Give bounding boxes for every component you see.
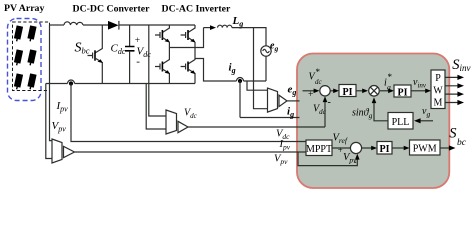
sensor: eg transducer trapezoid [268,88,278,112]
wire: PI 3 to PWM 2 [392,147,404,149]
wire: Vdc sense tap right [149,25,166,116]
svg-text:eg: eg [270,41,278,53]
PV panel 4 [27,49,36,63]
PV panel 5 [14,73,23,87]
signal wire Vdc into controller [188,126,325,128]
svg-text:P: P [435,73,441,84]
block PWM (inverter, vertical) [431,70,445,109]
PV panel 4 stem [29,63,31,66]
wire: Vpv sense tap from bottom rail [46,84,52,159]
controller block background [297,54,449,189]
transistor Q3 body bar [161,62,163,72]
PV panel 1 stem [16,39,18,42]
transistor Q2 body bar [187,30,189,40]
transistor Q1 gate [155,32,160,38]
sensor: Vdc transducer triangle [178,121,188,132]
PV panel 3 [14,49,23,63]
svg-text:Vpv: Vpv [274,154,288,166]
capacitor Cdc top lead [129,25,131,47]
transistor Sbc emitter arrow [98,59,103,63]
block MPPT [306,140,332,156]
junction dot ig node [238,79,242,83]
svg-text:Sbc: Sbc [75,41,90,56]
svg-text:DC-AC Inverter: DC-AC Inverter [162,4,231,15]
wire: AC return right of ig node [244,80,267,82]
wire: top DC rail middle segment [83,24,108,26]
signal wire eg into controller [287,100,300,102]
svg-text:PWM: PWM [413,144,437,155]
svg-text:*: * [316,67,321,77]
wire: Vdc* reference into summer [303,90,315,92]
svg-text:PI: PI [398,87,408,98]
svg-text:+: + [308,90,313,100]
wire: ig measurement drop [239,81,241,118]
svg-text:ig: ig [229,62,236,76]
wire: grid source bottom lead [265,56,267,81]
PV panel 6 stem [29,87,31,90]
wire: summer 1 to PI 1 [331,90,334,92]
wire: Vdc feedback into summer 1 [324,100,326,128]
svg-text:M: M [434,98,443,109]
transistor Q3 emitter [162,69,169,84]
wire: vg into PLL [420,120,434,122]
wire: Sbc gate signal out [440,147,450,149]
svg-text:-: - [354,157,357,167]
svg-text:dc: dc [315,78,323,86]
signal wire Vpv into controller [75,151,307,153]
wire: Vdc sense tap left [146,84,166,130]
inductor L1 (boost inductor) [64,22,83,25]
inverter right leg middle segment [188,42,195,64]
transistor Sbc collector lead [95,25,102,53]
transistor Q2 gate [181,32,186,38]
transistor Q4 body bar [187,62,189,72]
svg-text:Vdc: Vdc [276,129,290,141]
multiplier (circle with X) [369,86,380,97]
svg-text:ig: ig [287,106,294,119]
wire: Vpv feedback branch [298,152,357,165]
transistor Q1 emitter [162,38,169,43]
svg-text:Ipv: Ipv [56,100,69,114]
summer 1 (Vdc loop) [320,86,330,96]
transistor Q4 emitter [188,69,195,84]
wire: Ipv node hump [68,80,75,84]
sensor: Vpv transducer trapezoid [52,139,62,163]
sensor: Vpv transducer triangle [64,146,75,157]
block PWM (boost) [410,140,441,155]
Sinv gate signal arrows [445,77,459,102]
inverter right leg top lead [188,25,195,33]
inverter left leg top lead [162,25,169,33]
PV array outer dashed boundary [8,19,42,101]
svg-text:PV Array: PV Array [4,3,44,14]
svg-text:-: - [328,97,331,108]
svg-text:PLL: PLL [392,117,410,128]
AC source eg [261,46,271,56]
svg-text:PI: PI [380,144,390,155]
svg-text:W: W [433,86,443,97]
PV array inner dashed box [13,22,50,91]
wire: multiplier to PI 2 [380,90,389,92]
block PLL [388,113,413,130]
summer 2 (MPPT loop) [350,142,361,153]
svg-text:-: - [136,56,140,68]
wire: PI 2 to PWM block [411,90,426,92]
wire: top DC rail left segment [50,24,65,26]
svg-text:Lg: Lg [232,15,244,29]
capacitor Cdc plates [125,47,135,51]
junction dot Ipv node [69,81,73,85]
svg-text:Cdc: Cdc [111,43,126,57]
wire: summer 2 to PI 3 [362,147,372,149]
PV panel 2 [27,25,36,39]
PV panel 3 stem [16,63,18,66]
wire: AC return from right leg midpoint [195,59,237,82]
sensor: Vdc transducer trapezoid [166,110,177,134]
wire: ig node hump [237,78,244,81]
block PI 3 [377,142,392,155]
PV panel 6 [27,73,36,87]
wire: bottom DC rail left of Ipv node [46,83,68,85]
wire: left leg midpoint to AC output [169,28,203,48]
block PI 1 [339,85,356,97]
svg-text:PI: PI [343,87,353,98]
wire: Vpv sense tap from top rail [50,25,53,141]
sensor: eg transducer triangle [279,95,287,106]
svg-text:DC-DC Converter: DC-DC Converter [73,4,151,15]
svg-text:*: * [388,72,393,82]
transistor Sbc emitter lead [95,58,102,84]
wire: PI 1 to multiplier [356,90,363,92]
signal wire ig into controller [240,117,300,119]
diode D1 [108,21,119,30]
svg-text:Sinv: Sinv [452,57,470,73]
svg-text:+: + [135,36,140,46]
wire: top DC rail right segment [119,24,195,26]
wire: eg sense tap upper [254,28,268,109]
capacitor Cdc bottom lead [129,51,131,84]
svg-text:Vdc: Vdc [184,108,198,120]
PV panel 5 stem [16,87,18,90]
wire: eg sense tap lower [247,81,268,90]
wire: MPPT to summer 2 [332,147,350,149]
svg-text:eg: eg [288,84,297,97]
wire: AC top lead with arrow [204,27,212,29]
wire: bottom DC rail right of Ipv node [75,83,196,85]
block PI 2 [394,85,411,97]
svg-text:MPPT: MPPT [306,144,332,155]
inductor Lg [217,25,231,27]
wire: Lg to grid source [232,28,266,46]
PV panel 2 stem [29,39,31,42]
transistor Q1 body bar [161,30,163,40]
inverter left leg middle segment [162,42,169,64]
transistor Sbc body bar [94,50,96,60]
transistor Q3 gate [155,64,160,70]
PV panel 1 [14,25,23,39]
svg-text:Sbc: Sbc [449,126,467,148]
svg-text:Vpv: Vpv [52,120,67,134]
signal wire Ipv into controller [71,84,306,142]
transistor Q2 emitter [188,38,195,43]
transistor Q4 gate [181,64,186,70]
transistor Sbc gate [88,53,93,59]
wire: PLL to multiplier [374,101,388,121]
